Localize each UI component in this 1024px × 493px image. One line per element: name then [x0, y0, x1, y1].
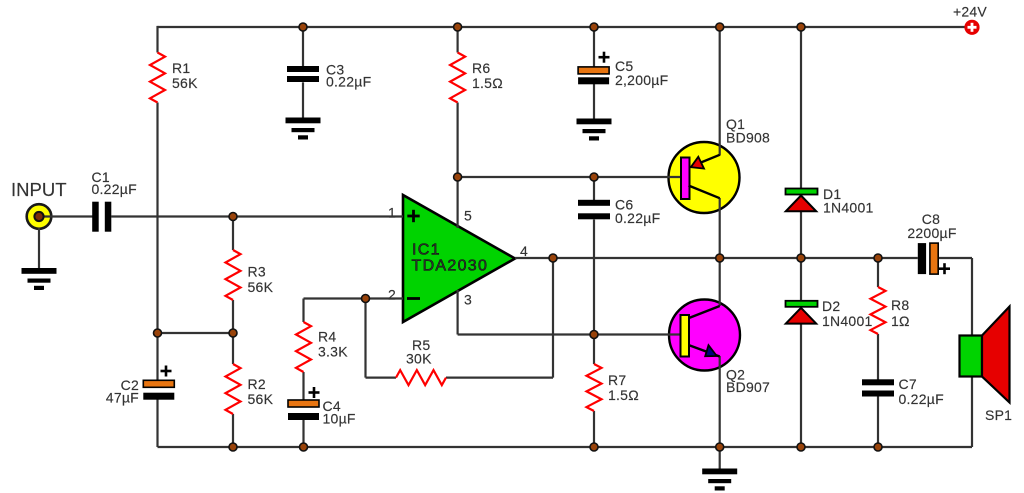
wire D2 from output node [800, 258, 802, 301]
wire C2 node to bottom of C2 top plate [156, 333, 158, 381]
junction ground rail / Q2 emitter [716, 443, 724, 451]
diode D2 cathode bar [786, 301, 818, 307]
svg-text:1N4001: 1N4001 [823, 200, 874, 216]
junction pin5 line / C6 [590, 173, 598, 181]
junction top rail / D1 [797, 23, 805, 31]
wire Q2 emitter to ground rail [719, 356, 721, 447]
resistor R4 [296, 322, 311, 372]
wire R7 from pin3 line [593, 335, 595, 365]
svg-text:3.3K: 3.3K [318, 344, 348, 360]
wire feedback to R5 [366, 377, 397, 379]
svg-text:BD908: BD908 [726, 130, 770, 146]
svg-text:56K: 56K [172, 75, 198, 91]
junction pin3 line / C6 / R7 [590, 331, 598, 339]
Q1 base bar [681, 158, 690, 200]
wire R6 to pin5 node [457, 103, 459, 178]
wire R8 from output node [877, 258, 879, 287]
svg-text:+24V: +24V [953, 4, 987, 20]
capacitor C8 polarized [918, 243, 938, 274]
svg-text:2,200µF: 2,200µF [615, 72, 668, 88]
svg-text:1: 1 [388, 205, 396, 221]
Q1 emitter arrow [691, 157, 704, 169]
wire R5 to output riser [446, 377, 553, 379]
wire +24V top rail [158, 26, 966, 28]
IC1 + input symbol [407, 210, 419, 222]
wire R2 to ground rail [232, 414, 234, 447]
wire feedback node down [364, 299, 366, 378]
wire C1 to op-amp pin 1 [111, 215, 403, 217]
wire Q1 emitter riser to top rail [719, 27, 721, 156]
C2 polarity + [161, 366, 172, 377]
wire pin 5 line to Q1 base [458, 176, 682, 178]
svg-text:0.22µF: 0.22µF [92, 181, 137, 197]
wire op-amp output [515, 257, 918, 259]
junction R3 / R2 [229, 329, 237, 337]
ground C5 [577, 119, 612, 141]
wire input jack to C1 [42, 215, 93, 217]
Q1 collector line [689, 186, 720, 199]
wire C5 branch from top rail [593, 27, 595, 67]
junction top rail / C5 [590, 23, 598, 31]
svg-text:1Ω: 1Ω [891, 313, 910, 329]
junction pin2 / feedback [362, 295, 370, 303]
wire pin 3 drop [457, 290, 459, 335]
svg-text:R3: R3 [248, 264, 266, 280]
svg-text:R6: R6 [472, 60, 490, 76]
IC1 - input symbol [407, 297, 420, 300]
wire R6 branch from top rail [457, 27, 459, 53]
wire C3 to ground [302, 82, 304, 117]
diode D1 anode triangle [786, 196, 816, 212]
capacitor C4 polarized [288, 400, 319, 420]
wire R4 to C4 [302, 372, 304, 401]
svg-text:R4: R4 [318, 329, 336, 345]
wire C3 branch from top rail [302, 27, 304, 66]
ground input [22, 268, 57, 290]
op-amp IC1 TDA2030 body [403, 195, 515, 322]
junction node A / C2 [154, 329, 162, 337]
junction ground rail / C7 [874, 443, 882, 451]
Q1 emitter line [696, 155, 720, 165]
wire speaker drop [971, 258, 973, 447]
svg-text:R7: R7 [608, 372, 626, 388]
junction pin5 / R6 [454, 173, 462, 181]
junction top rail / C3 [299, 23, 307, 31]
Q2 emitter arrow [705, 345, 717, 356]
speaker SP1 cone [982, 307, 1010, 403]
wire input jack to ground [38, 228, 40, 268]
wire R1 branch from top rail [156, 26, 158, 53]
svg-text:TDA2030: TDA2030 [412, 257, 489, 274]
capacitor C6 [578, 200, 610, 220]
svg-text:1.5Ω: 1.5Ω [608, 387, 639, 403]
svg-text:1N4001: 1N4001 [822, 313, 873, 329]
wire pin 5 riser [457, 177, 459, 228]
junction output / Q1 Q2 [716, 254, 724, 262]
svg-text:5: 5 [464, 208, 472, 224]
wire R3 branch from input line [232, 217, 234, 251]
wire Q2 collector riser from output node [719, 258, 721, 306]
wire D1 to output node [800, 211, 802, 258]
junction output / feedback [549, 254, 557, 262]
junction ground rail / D2 [797, 443, 805, 451]
wire R1 bottom to C2 node [156, 103, 158, 334]
wire bottom ground rail [158, 446, 973, 448]
svg-text:0.22µF: 0.22µF [899, 391, 944, 407]
svg-text:SP1: SP1 [985, 407, 1012, 423]
wire Q1 collector drop to output node [719, 198, 721, 258]
svg-text:0.22µF: 0.22µF [326, 74, 371, 90]
junction output / R8 [874, 254, 882, 262]
Q2 emitter line [689, 345, 720, 357]
resistor R7 [587, 364, 602, 411]
power +24V terminal [964, 20, 979, 35]
resistor R2 [226, 364, 241, 414]
wire C6 to pin3 line [593, 220, 595, 335]
input jack outer ring [27, 204, 52, 229]
junction ground rail / R7 [590, 443, 598, 451]
svg-text:INPUT: INPUT [11, 179, 67, 200]
junction ground rail / C4 [300, 443, 308, 451]
junction ground rail / R2 [229, 443, 237, 451]
svg-text:BD907: BD907 [726, 379, 770, 395]
svg-text:R2: R2 [248, 376, 266, 392]
capacitor C2 polarized [143, 380, 174, 399]
diode D2 anode triangle [786, 308, 816, 324]
wire R7 to ground rail [593, 411, 595, 447]
ground C3 [286, 118, 321, 140]
svg-text:IC1: IC1 [412, 242, 441, 259]
wire C6 from pin5 line [593, 177, 595, 200]
ground center [702, 469, 737, 491]
wire C2 bottom to ground rail [156, 400, 158, 448]
svg-text:4: 4 [520, 243, 528, 259]
wire C5 to ground [593, 84, 595, 119]
capacitor C5 polarized [578, 67, 609, 84]
wire pin 2 horizontal [304, 297, 404, 299]
capacitor C1 [92, 202, 111, 232]
junction top rail / Q1 emitter [716, 23, 724, 31]
svg-text:56K: 56K [248, 279, 274, 295]
wire R8 to C7 [877, 334, 879, 380]
svg-text:30K: 30K [406, 351, 432, 367]
svg-text:10µF: 10µF [323, 411, 356, 427]
transistor Q2 body circle [669, 300, 740, 371]
svg-text:2: 2 [388, 287, 396, 303]
svg-text:R1: R1 [172, 60, 190, 76]
svg-text:D2: D2 [822, 298, 840, 314]
Q2 collector line [689, 306, 720, 318]
resistor R6 [450, 53, 465, 103]
Q2 base bar [681, 315, 690, 357]
wire C7 to ground rail [877, 397, 879, 448]
svg-text:2200µF: 2200µF [907, 225, 956, 241]
svg-text:47µF: 47µF [106, 390, 139, 406]
wire C4 to ground rail [302, 420, 304, 447]
junction input line / R3 [229, 213, 237, 221]
wire C8 to speaker corner [938, 257, 972, 259]
svg-text:C7: C7 [899, 376, 917, 392]
wire node A to R3 node [158, 332, 234, 334]
svg-text:56K: 56K [248, 391, 274, 407]
wire R2 from node [232, 333, 234, 364]
resistor R8 [871, 287, 886, 334]
wire center ground drop [719, 447, 721, 469]
transistor Q1 body circle [669, 142, 740, 213]
wire R4 from pin2 line [302, 299, 304, 323]
wire R3 to node [232, 300, 234, 333]
wire output riser to pin4 node [552, 258, 554, 378]
svg-text:0.22µF: 0.22µF [615, 210, 660, 226]
diode D1 cathode bar [786, 189, 818, 195]
capacitor C3 [287, 66, 319, 82]
wire D1 from top rail [800, 27, 802, 189]
capacitor C7 [862, 379, 894, 396]
C4 polarity + [309, 387, 320, 398]
input jack center pin [34, 212, 43, 221]
junction output / D1 D2 [797, 254, 805, 262]
svg-text:R8: R8 [891, 297, 909, 313]
svg-text:3: 3 [464, 292, 472, 308]
C5 polarity + [599, 52, 610, 63]
svg-text:1.5Ω: 1.5Ω [472, 75, 503, 91]
speaker SP1 frame [960, 336, 983, 377]
resistor R1 [150, 53, 165, 103]
resistor R5 [396, 370, 446, 385]
resistor R3 [226, 250, 241, 300]
wire D2 to ground rail [800, 324, 802, 448]
junction top rail / R6 [454, 23, 462, 31]
wire pin 3 line to Q2 base [458, 333, 681, 335]
C8 polarity + [939, 263, 950, 274]
